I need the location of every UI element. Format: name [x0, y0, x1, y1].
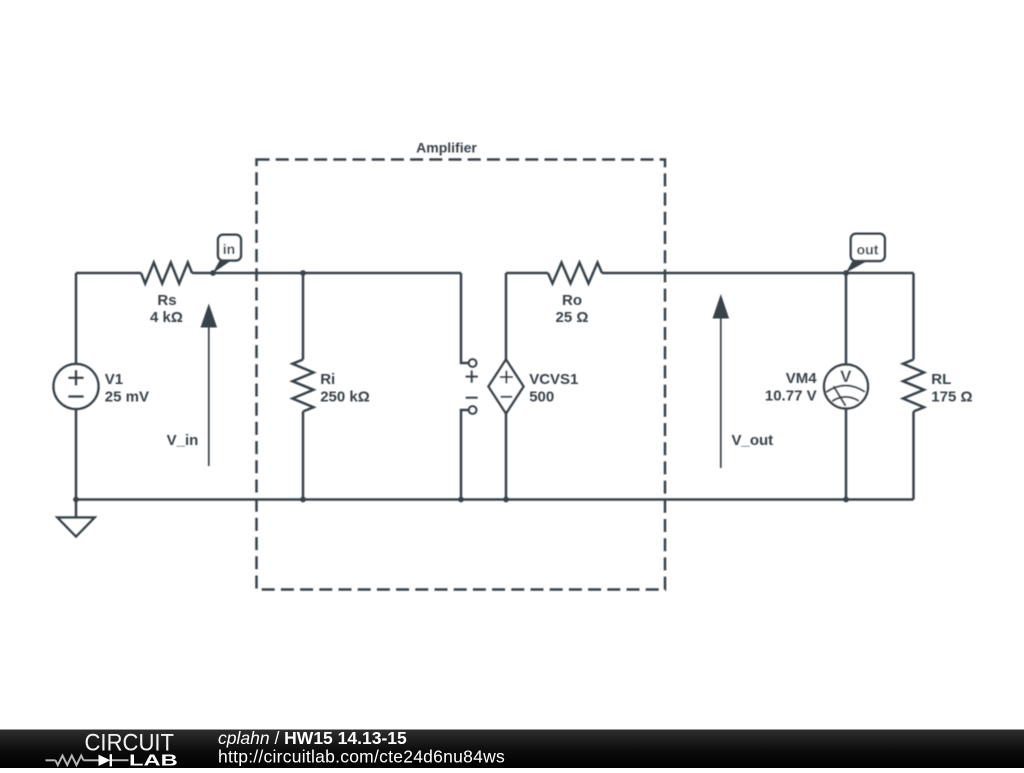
svg-text:cplahn / HW15 14.13-15: cplahn / HW15 14.13-15 [218, 728, 407, 748]
svg-text:Amplifier: Amplifier [416, 139, 477, 155]
svg-text:VCVS1: VCVS1 [529, 371, 578, 388]
svg-text:http://circuitlab.com/cte24d6n: http://circuitlab.com/cte24d6nu84ws [218, 746, 505, 766]
svg-text:250 kΩ: 250 kΩ [320, 388, 370, 405]
svg-text:V_out: V_out [732, 432, 774, 449]
svg-text:10.77 V: 10.77 V [765, 388, 817, 405]
svg-text:Rs: Rs [157, 292, 176, 309]
svg-text:25 mV: 25 mV [105, 388, 149, 405]
svg-text:175 Ω: 175 Ω [931, 388, 972, 405]
svg-text:V_in: V_in [167, 432, 199, 449]
svg-text:RL: RL [931, 371, 951, 388]
svg-text:V: V [840, 367, 852, 386]
svg-text:in: in [223, 241, 235, 257]
svg-text:4 kΩ: 4 kΩ [150, 309, 183, 326]
svg-text:Ri: Ri [320, 371, 335, 388]
svg-text:500: 500 [529, 388, 554, 405]
svg-text:VM4: VM4 [786, 370, 818, 387]
svg-text:out: out [857, 242, 879, 258]
svg-text:LAB: LAB [129, 752, 178, 768]
svg-text:V1: V1 [105, 371, 123, 388]
svg-text:25 Ω: 25 Ω [556, 309, 589, 326]
svg-text:Ro: Ro [562, 292, 582, 309]
